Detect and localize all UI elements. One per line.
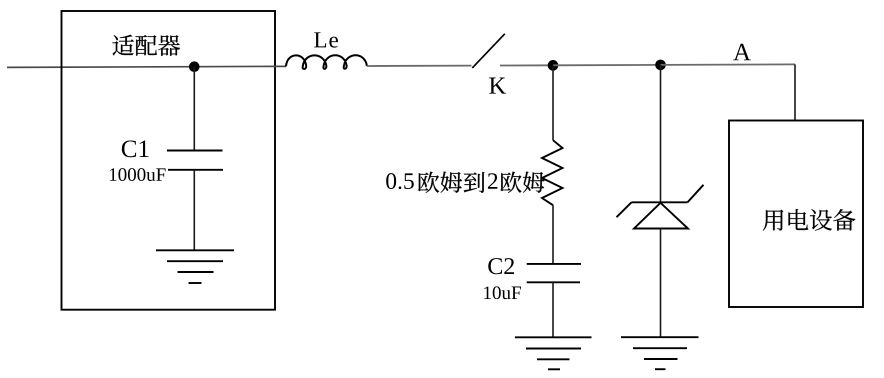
wire node 1 down to resistor [552, 65, 554, 140]
wire C1 to ground [193, 170, 195, 251]
box adapter (适配器) [62, 11, 276, 310]
wire inductor to switch [367, 65, 472, 67]
switch K blade [472, 34, 505, 68]
wire switch contact to node 1 [500, 64, 553, 66]
box load (用电设备) [729, 121, 863, 308]
wire node 1 to node 2 [553, 64, 661, 66]
ground (under C2) [515, 337, 592, 369]
label 1000uF [110, 168, 166, 181]
wire down into load box [794, 64, 796, 120]
junction dot (adapter/C1 node) [189, 61, 200, 72]
wire junction to C1 [193, 67, 195, 151]
wire resistor to C2 [552, 205, 554, 264]
inductor Le [286, 55, 367, 69]
label Le [314, 32, 338, 47]
ground (under C1) [156, 250, 234, 283]
label C1 [122, 140, 149, 157]
label C2 [488, 258, 514, 274]
junction dot node 1 (resistor branch) [548, 60, 559, 71]
wire node 2 down to TVS [660, 65, 662, 202]
junction dot node 2 (TVS branch) [655, 60, 666, 71]
label 适配器 (adapter) [112, 35, 180, 56]
wire input (left) to adapter junction [7, 66, 194, 69]
ground (under TVS) [621, 337, 699, 369]
label A (node A) [733, 44, 751, 61]
capacitor C1 [167, 151, 223, 170]
wire C2 to ground [552, 282, 554, 337]
wire node 2 to corner at A [661, 63, 796, 66]
resistor 0.5-2 ohm [542, 140, 563, 205]
label 0.5欧姆到2欧姆 (0.5 ohm to 2 ohm) [386, 172, 544, 193]
capacitor C2 [527, 264, 581, 282]
wire TVS to ground [660, 229, 662, 338]
label K [489, 78, 506, 94]
wire adapter junction to inductor [194, 65, 286, 67]
TVS zener diode [617, 185, 704, 229]
label 10uF [484, 286, 521, 299]
label 用电设备 (load device) [763, 209, 856, 231]
